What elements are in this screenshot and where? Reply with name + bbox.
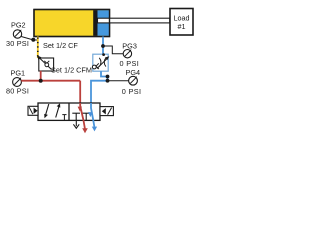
valve V1 left-position flow arrows bbox=[44, 103, 60, 118]
svg-text:30 PSI: 30 PSI bbox=[6, 39, 29, 48]
wire rod-side line (blue) cylinder to FC2 bbox=[102, 37, 104, 55]
cylinder C1 barrel bbox=[34, 10, 110, 37]
pressure gauge PG2 bbox=[13, 30, 21, 39]
wire PG4 stub bbox=[108, 80, 129, 82]
directional valve V1 body bbox=[38, 103, 100, 120]
svg-text:PG1: PG1 bbox=[11, 69, 26, 78]
piston rod bbox=[98, 18, 170, 23]
blue flow arrow below valve bbox=[92, 127, 97, 132]
wire PG2 stub bbox=[21, 37, 38, 41]
cylinder right end cap border bbox=[34, 10, 110, 37]
exhaust arrow below valve (black open) bbox=[73, 120, 79, 128]
svg-text:PG2: PG2 bbox=[11, 20, 26, 29]
wire red flow path through valve bbox=[78, 103, 85, 129]
cylinder rod-side chamber (blue) bbox=[98, 10, 110, 36]
load box Load #1 bbox=[170, 9, 193, 36]
pressure gauge PG4 bbox=[129, 76, 138, 85]
pressure gauge PG1 bbox=[13, 77, 22, 86]
svg-text:80 PSI: 80 PSI bbox=[6, 87, 29, 96]
wire blue flow path through valve bbox=[88, 103, 94, 127]
flow control valve FC2 (right) bbox=[92, 53, 109, 71]
pressure gauge PG3 bbox=[123, 49, 131, 58]
flow control valve FC1 (left) bbox=[37, 55, 54, 71]
valve V1 left-position blocked port T bbox=[62, 115, 66, 121]
junction dot PG3 tap bbox=[101, 44, 105, 48]
wire cap-side line (yellow dashed) bbox=[37, 37, 39, 59]
junction dot at PG2 tap bbox=[31, 38, 35, 42]
svg-text:Set 1/2 CFM: Set 1/2 CFM bbox=[51, 65, 92, 74]
valve V1 blocked port T symbols bbox=[72, 113, 90, 120]
svg-text:0 PSI: 0 PSI bbox=[122, 87, 142, 96]
svg-text:PG3: PG3 bbox=[122, 42, 137, 51]
wire PG3 stub (stepped) bbox=[103, 46, 123, 54]
valve V1 right pilot bbox=[100, 107, 113, 116]
svg-text:0 PSI: 0 PSI bbox=[120, 59, 140, 68]
piston bbox=[93, 10, 97, 36]
svg-text:Set 1/2 CF: Set 1/2 CF bbox=[43, 41, 78, 50]
wire supply line (red) FC1 to valve bbox=[21, 71, 80, 103]
valve V1 left pilot bbox=[28, 106, 38, 115]
red flow arrow below valve bbox=[82, 128, 88, 133]
junction dot PG4 tap bbox=[106, 75, 110, 83]
svg-text:#1: #1 bbox=[178, 22, 186, 31]
wire exhaust line (blue) FC2 to valve bbox=[91, 71, 108, 103]
junction dot PG1 line / FC1 bbox=[39, 79, 43, 83]
